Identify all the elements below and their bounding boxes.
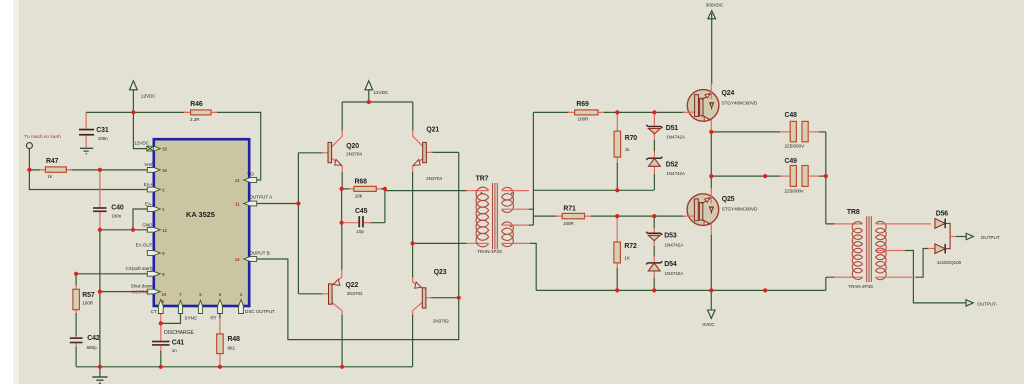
capacitor C49 225/600v [790,166,796,187]
resistor R70 [616,112,618,164]
wire shutdown pin 10 [100,291,147,293]
svg-text:11: 11 [235,201,240,206]
svg-text:15: 15 [162,147,167,152]
TR7 primary coil [476,187,489,247]
svg-text:1N4742A: 1N4742A [666,171,685,176]
zener D53 1N4742A [653,216,655,229]
ground symbol [99,367,101,377]
pin 16 Vref [147,168,160,173]
svg-text:2.2R: 2.2R [190,117,200,122]
svg-text:R72: R72 [624,243,637,250]
svg-text:14: 14 [235,257,240,262]
svg-text:300VDC: 300VDC [706,3,724,8]
wire Q25 emitter to 0V rail [710,235,712,290]
wire C48/C49 rail down to TR8 primary top [826,132,835,224]
bottom pin 5 CT [158,300,163,314]
svg-text:10k: 10k [355,193,363,198]
0V bottom rail (right section) [536,289,826,291]
svg-text:EA+: EA+ [144,182,153,187]
gate drive line R71 row [533,215,685,217]
svg-text:2N3704: 2N3704 [426,176,442,181]
TR7 secondary 2 coil [502,222,514,247]
pin 12 GND [147,227,160,232]
svg-text:D56: D56 [936,211,949,218]
zener D54 1N4742A [653,246,655,257]
svg-text:STGY40NC60VD: STGY40NC60VD [722,207,758,212]
svg-text:100R: 100R [82,301,94,306]
svg-text:Q25: Q25 [722,196,735,203]
svg-text:TR7: TR7 [476,175,489,182]
TR7 sec1 bottom lead [502,208,530,210]
svg-text:C41: C41 [172,339,185,346]
svg-text:12VDC: 12VDC [374,90,389,95]
terminal OUTPUT [966,233,973,239]
diode D56 lower [935,244,945,254]
svg-text:225/600V: 225/600V [785,144,806,149]
svg-text:12VDC: 12VDC [134,141,149,146]
power arrow 12VDC (middle) [368,83,370,102]
resistor R72 [616,216,618,269]
svg-text:OUTPUT A: OUTPUT A [249,194,273,199]
svg-text:Tu mach so sanh: Tu mach so sanh [24,134,61,140]
svg-text:R57: R57 [82,292,95,299]
TR8 primary coil [852,222,862,280]
left white margin strip [0,0,13,384]
TR8 secondary top lead to D56 [876,223,931,225]
svg-text:16: 16 [162,168,167,173]
svg-text:SYNC: SYNC [185,316,198,321]
svg-text:4x15GQ100: 4x15GQ100 [937,260,962,265]
wire down to Q25 [710,176,712,189]
svg-text:OUTPUT: OUTPUT [981,235,1000,240]
svg-text:225/600v: 225/600v [785,189,805,194]
svg-text:RT: RT [210,316,216,321]
svg-text:10p: 10p [356,229,364,234]
svg-text:TRAN-2P3S: TRAN-2P3S [848,284,873,289]
wire D52 to return line [653,174,655,190]
svg-text:1N4742A: 1N4742A [665,271,684,276]
wire C42 to bottom rail [75,347,77,367]
ground under C31 [80,148,93,153]
svg-text:C48: C48 [785,112,798,119]
svg-text:DSC OUTPUT: DSC OUTPUT [245,309,275,314]
wire C40 bottom to ground rail (shutdown chain) [99,230,101,367]
wire GND net [100,229,147,231]
wire TR7 primary bottom lead [413,242,467,244]
wire terminal to EA+ [29,149,147,190]
TR7 sec2 bottom lead to 0V rail [502,242,531,244]
power arrow 12VDC (left) [132,83,134,112]
svg-text:D54: D54 [664,261,677,268]
bottom ground rail [76,366,413,368]
TR7 secondary 1 coil [502,187,514,212]
svg-text:D52: D52 [666,161,679,168]
resistor R68 [348,188,382,190]
svg-text:R69: R69 [576,101,589,108]
IGBT Q25 STGY40NC60VD [687,194,719,226]
svg-text:R70: R70 [625,135,638,142]
svg-text:OUTPUT-: OUTPUT- [977,301,998,306]
pin 2 EA+ [147,187,160,192]
svg-text:8k2: 8k2 [228,345,236,350]
pin 8 CX soft start [147,271,160,276]
svg-text:12: 12 [162,228,167,233]
svg-text:GND: GND [142,222,153,227]
svg-text:DISCHARGE: DISCHARGE [164,330,194,336]
svg-text:C45: C45 [355,208,368,215]
wire Q20 emitter to R68 node [341,172,343,189]
transistor Q20 2N3704 [341,102,343,131]
capacitor C42 [75,336,77,348]
pin 9 EA OUT [147,251,160,256]
wire Q24 emitter node to C48 [711,131,781,133]
svg-text:OCTRIP: OCTRIP [132,290,149,295]
svg-text:CX(soft start): CX(soft start) [125,266,153,271]
svg-text:OUPUT B: OUPUT B [249,251,269,256]
svg-text:CT: CT [151,309,157,314]
pin 1 EA- [147,207,160,212]
TR8 secondary coil [876,221,887,279]
svg-text:R46: R46 [190,101,203,108]
svg-text:C31: C31 [96,127,109,134]
terminal OUTPUT- [966,300,973,306]
svg-text:D51: D51 [666,125,679,132]
capacitor C41 with CT/SYNC join [160,314,162,353]
svg-text:2N3704: 2N3704 [346,151,362,156]
12VDC rail over Q20/Q21 [342,101,413,103]
svg-text:C42: C42 [87,335,100,342]
pin 11 OUTPUT A [244,201,257,206]
svg-text:R48: R48 [228,336,241,343]
transistor Q21 2N3704 (mirrored) [412,102,414,131]
svg-text:KA 3525: KA 3525 [186,210,215,219]
resistor R69 [533,111,685,113]
svg-text:R71: R71 [563,206,576,213]
svg-text:100R: 100R [563,221,575,226]
TR7 core [493,183,498,249]
svg-text:1K: 1K [624,255,630,260]
svg-text:1N4742A: 1N4742A [665,242,684,247]
zener D51 1N4742A [653,112,655,141]
svg-text:0VDC: 0VDC [703,322,716,327]
TR8 secondary bottom lead to D56 lower anode [876,276,917,278]
svg-text:Q21: Q21 [426,126,439,133]
svg-text:13: 13 [235,178,240,183]
wire R47 row to Vref [29,169,147,171]
diode D56 upper [935,219,945,229]
svg-text:EA OUT: EA OUT [136,243,153,248]
svg-text:2N3702: 2N3702 [433,318,449,323]
input terminal (Tu mach so sanh) [26,143,32,149]
resistor R46 [184,111,218,113]
bottom pin 4 OSC OUTPUT [239,300,244,314]
svg-text:R68: R68 [355,179,368,186]
wire Q21 emitter down to TR7 primary bottom node [412,172,414,243]
svg-text:1k: 1k [625,147,631,152]
svg-text:Shut down: Shut down [131,283,153,288]
wire R57 to C42 [75,313,77,337]
capacitor C45 [342,189,385,223]
wire D54 to 0V rail [653,278,655,290]
transistor Q22 2N3702 [341,223,343,270]
svg-text:Q24: Q24 [722,90,735,97]
wire TR7 primary top lead to R68/C45 node [385,190,467,192]
gate return line (sec1) [533,189,654,191]
wire EA- branch [133,209,147,230]
svg-text:TR8: TR8 [847,209,860,216]
vertical bus at TR7 right [532,112,534,225]
pin 10 Shutdown [147,289,160,294]
svg-text:R47: R47 [46,158,59,165]
svg-text:EA-: EA- [145,201,153,206]
wire OUTPUT A net to Q20/Q22 bases [257,153,323,294]
TR8 secondary mid lead to OUTPUT- [876,250,906,252]
transistor Q23 2N3702 (mirrored) [413,276,432,316]
wire 0V rail up to TR8 primary bottom [826,277,835,290]
svg-text:C40: C40 [111,205,124,212]
svg-text:12VDC: 12VDC [141,93,156,98]
svg-text:Vref: Vref [144,162,153,167]
wire Q22 collector to bottom rail [341,315,343,367]
capacitor C48 225/600V [790,121,796,141]
bottom pin 5 number and SYNC [198,300,202,313]
resistor R47 [40,169,72,171]
svg-text:D53: D53 [664,232,677,239]
pin 15 VCC (box with X) [147,146,154,151]
svg-text:VO: VO [247,172,254,177]
bottom pin 7 [178,300,182,313]
svg-text:Q23: Q23 [434,269,447,276]
TR7 sec1 top lead to R69 [502,190,529,192]
bottom pin 6 RT [218,300,223,314]
svg-text:Q22: Q22 [346,282,359,289]
resistor R57 [75,285,77,314]
IGBT Q24 STGY40NC60VD [687,90,719,122]
wire to OUTPUT terminal [950,236,957,238]
svg-text:1k: 1k [47,174,53,179]
svg-text:680p: 680p [87,345,98,350]
svg-text:100n: 100n [98,136,109,141]
ground 0VDC arrow [710,290,712,316]
wire R46 to VO pin 13 [217,112,261,180]
wire node to C49 [711,175,781,177]
wire Q23 collector to bottom rail end [412,315,414,367]
wire to VCC pin 15 [133,112,146,148]
svg-text:2N3702: 2N3702 [347,291,363,296]
capacitor C31 [85,112,87,148]
svg-text:1N4742A: 1N4742A [666,135,685,140]
wire OUTPUT B net to Q21/Q23 bases [257,152,459,339]
svg-text:Q20: Q20 [346,143,359,150]
pin 13 VO [244,178,257,183]
wire CX soft start [76,274,147,286]
TR7 sec2 top lead [502,224,530,226]
IC U1 KA3525 body [154,139,249,306]
svg-text:100n: 100n [111,214,122,219]
resistor R48 [219,314,221,320]
pin 14 OUTPUT B [244,257,257,262]
svg-text:C49: C49 [785,158,798,165]
svg-text:STGY40NC60VD: STGY40NC60VD [722,100,758,105]
capacitor C40 [99,170,101,230]
wire Q24 emitter down to Q25 collector [710,132,712,176]
zener D52 1N4742A [653,140,655,152]
svg-text:1n: 1n [172,348,178,353]
svg-text:100R: 100R [578,116,590,121]
wire 12VDC top row (C31 to R46) [86,111,186,113]
svg-text:TRAN-1P2S: TRAN-1P2S [477,249,502,254]
svg-text:10: 10 [162,292,167,297]
